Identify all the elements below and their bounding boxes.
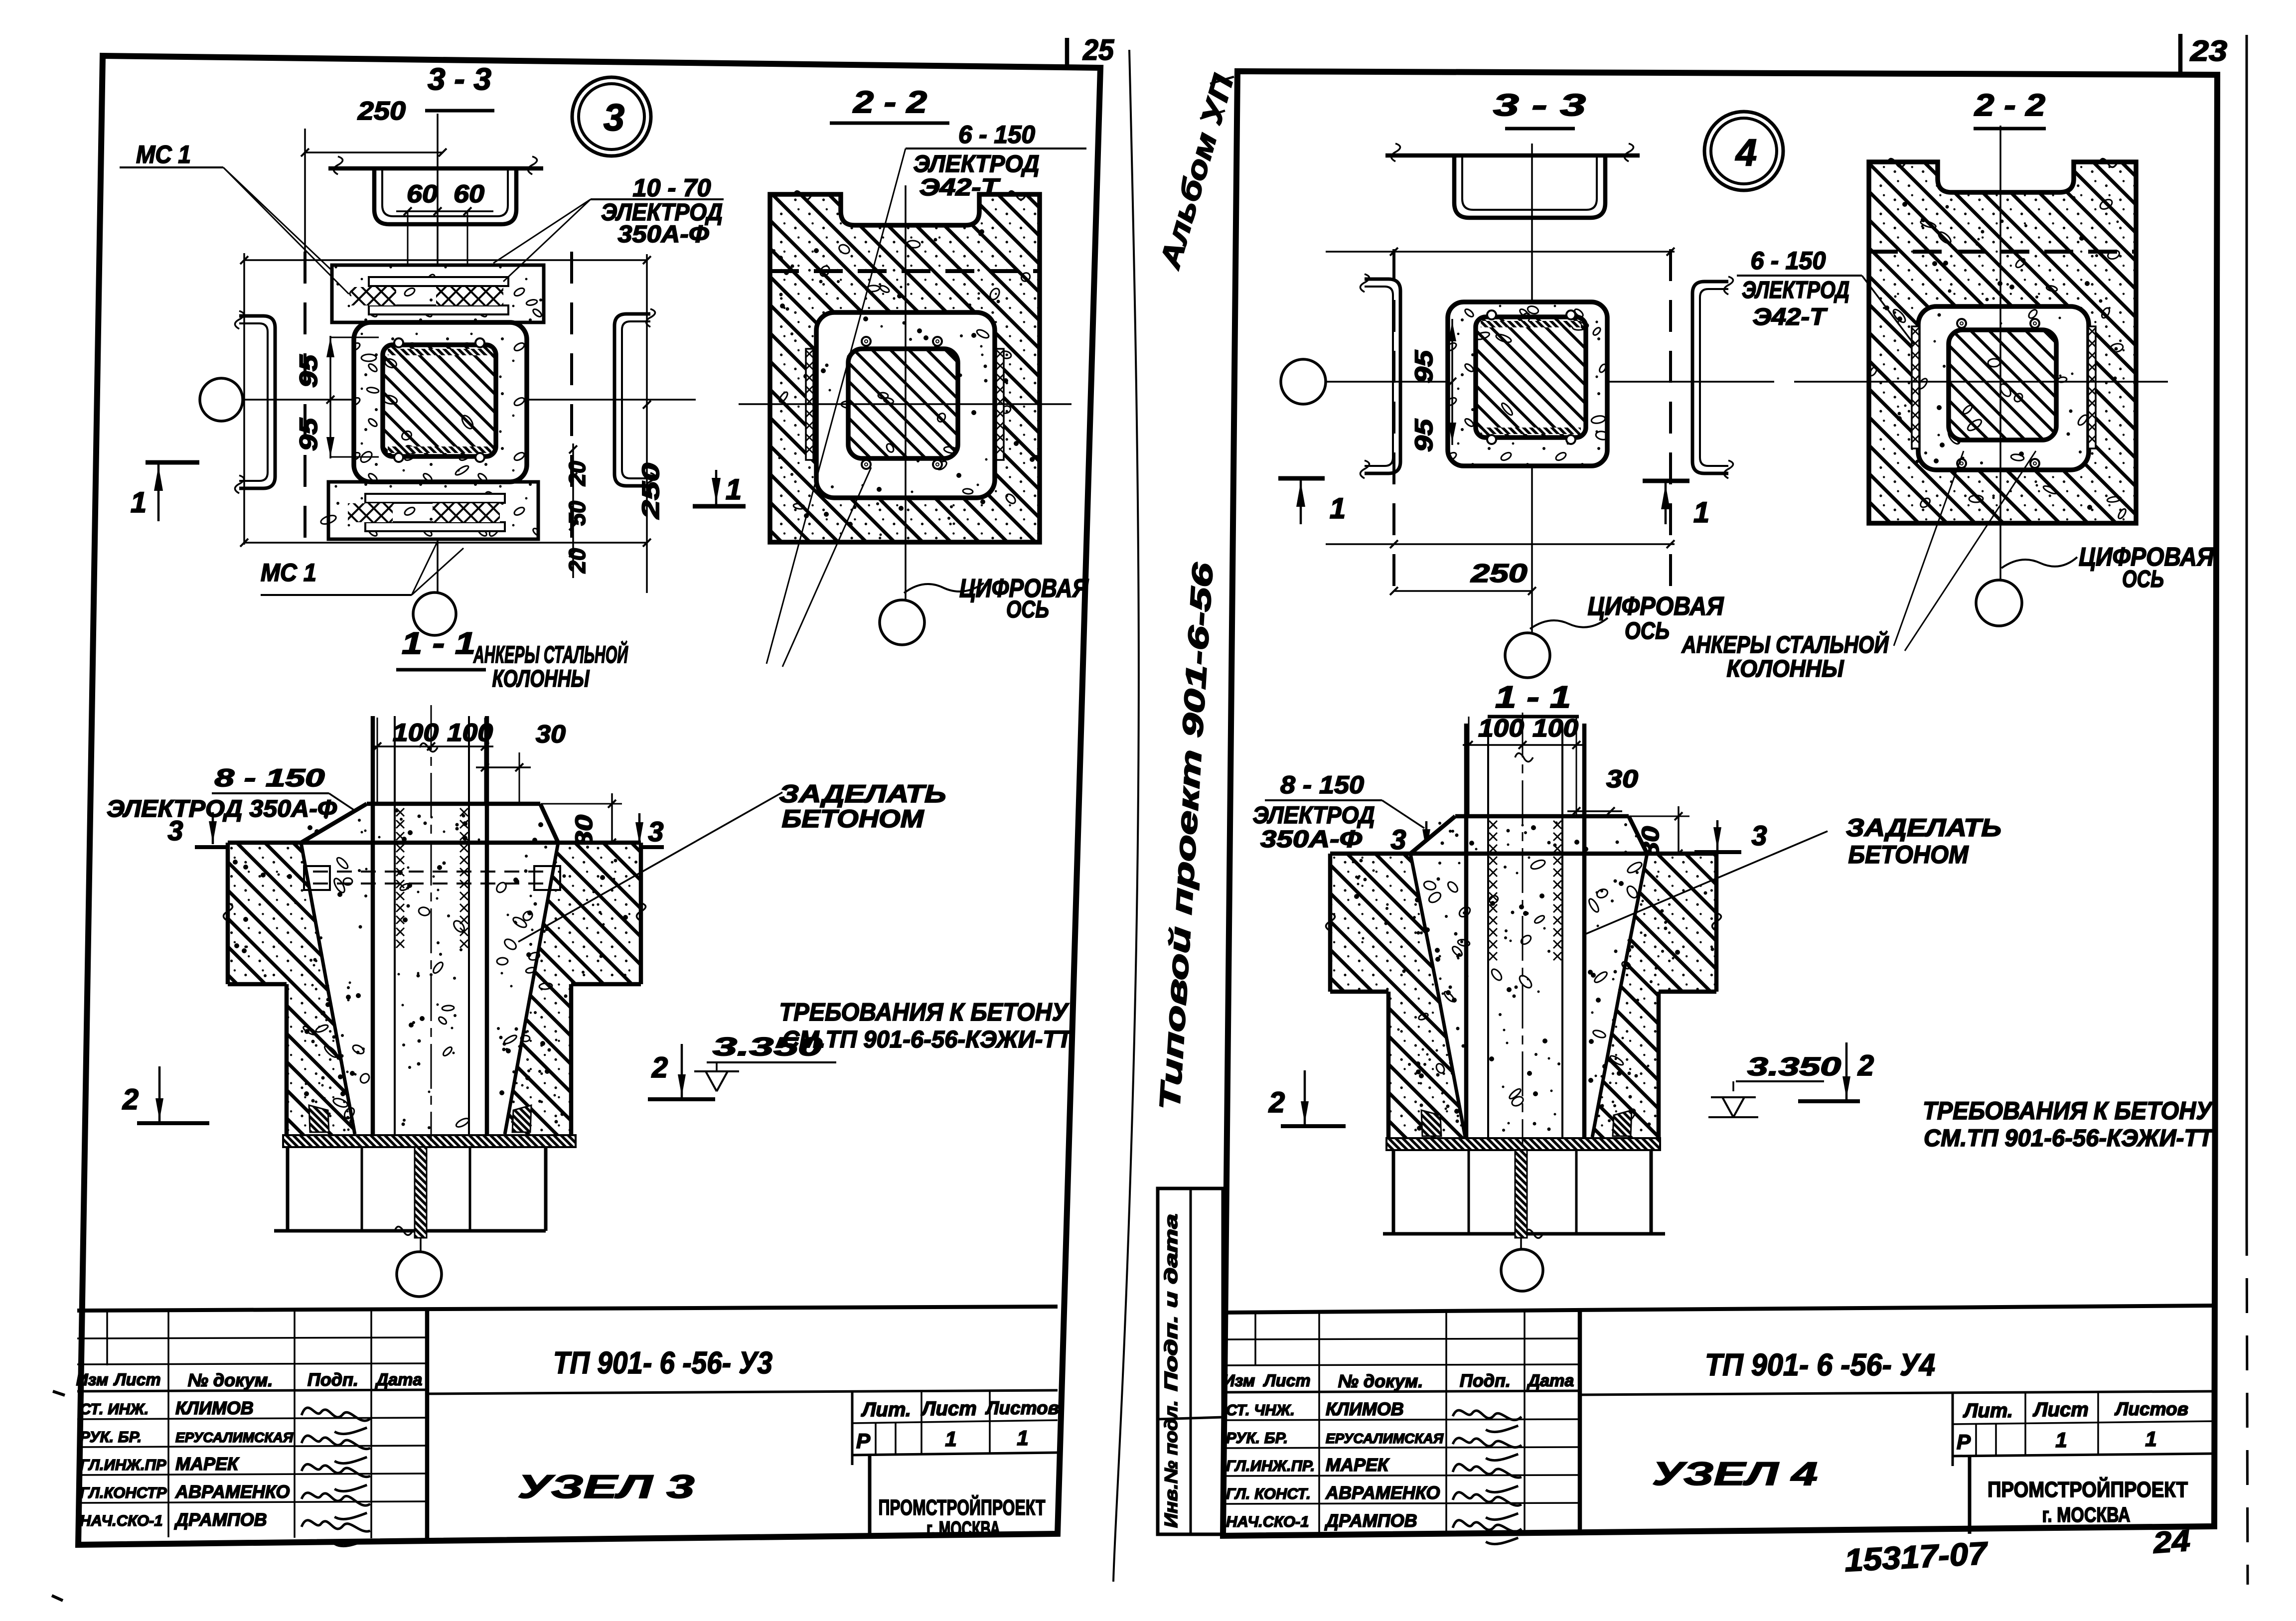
footing outline s2 (1330, 852, 1716, 856)
pedestal s2 (1386, 992, 1391, 1137)
svg-text:Лист: Лист (920, 1398, 977, 1420)
svg-text:ГЛ.КОНСТР: ГЛ.КОНСТР (80, 1484, 167, 1501)
svg-text:3.350: 3.350 (1747, 1052, 1841, 1081)
center lines 3-3 s2 (1326, 381, 1774, 383)
svg-text:20: 20 (564, 548, 590, 574)
section mark 3 right s1 (616, 845, 664, 849)
channels s2 3-3 (1365, 279, 1400, 473)
svg-text:Подп. и дата: Подп. и дата (1161, 1214, 1181, 1391)
svg-text:ОСЬ: ОСЬ (2122, 566, 2164, 592)
sheet2 frame (1223, 71, 2217, 1536)
sheet1 frame (78, 56, 1100, 1545)
svg-text:1: 1 (1017, 1426, 1028, 1450)
axis circle bottom 1-1 s1 (397, 1252, 442, 1297)
top bracket s2 (1385, 153, 1640, 158)
top bracket s1 (328, 166, 543, 171)
section mark 1 right s2 (1643, 479, 1689, 483)
svg-text:8 - 150: 8 - 150 (1280, 771, 1364, 799)
svg-text:Лит.: Лит. (1963, 1400, 2013, 1422)
svg-text:3: 3 (1390, 824, 1406, 855)
svg-text:УЗЕЛ 3: УЗЕЛ 3 (518, 1468, 695, 1505)
svg-text:50: 50 (564, 501, 590, 526)
stamp column inv/podp sheet2 (1158, 1188, 1223, 1534)
svg-text:30: 30 (536, 720, 566, 748)
svg-text:Подп.: Подп. (1460, 1370, 1511, 1391)
svg-text:ТРЕБОВАНИЯ К БЕТОНУ: ТРЕБОВАНИЯ К БЕТОНУ (779, 998, 1070, 1026)
center lines 2-2 s1 (739, 403, 1071, 405)
svg-text:100: 100 (1478, 714, 1524, 742)
svg-text:КЛИМОВ: КЛИМОВ (175, 1398, 254, 1418)
foundation below s2 (1392, 1150, 1395, 1234)
steel core s1 (383, 345, 496, 456)
svg-text:2: 2 (122, 1083, 139, 1116)
svg-text:БЕТОНОМ: БЕТОНОМ (782, 805, 924, 833)
svg-text:95: 95 (1410, 350, 1438, 383)
foundation below s1 (286, 1147, 290, 1231)
svg-text:350А-Ф: 350А-Ф (1260, 826, 1363, 853)
svg-text:ЗАДЕЛАТЬ: ЗАДЕЛАТЬ (779, 780, 946, 808)
center lines 3-3 s1 (243, 399, 696, 401)
svg-text:1 - 1: 1 - 1 (402, 626, 475, 661)
right page edge line (2246, 35, 2248, 1221)
svg-text:250: 250 (1470, 559, 1527, 588)
axis circle 2-2 s2 (1976, 580, 2022, 626)
svg-text:ЭЛЕКТРОД: ЭЛЕКТРОД (914, 151, 1040, 177)
svg-text:95: 95 (295, 354, 322, 388)
axis circle left s1 (200, 378, 243, 421)
svg-text:Р: Р (1957, 1430, 1971, 1454)
svg-text:СМ.ТП 901-6-56-КЭЖИ-ТТ: СМ.ТП 901-6-56-КЭЖИ-ТТ (1924, 1125, 2215, 1152)
svg-text:АНКЕРЫ СТАЛЬНОЙ: АНКЕРЫ СТАЛЬНОЙ (473, 641, 628, 668)
svg-text:1: 1 (2145, 1427, 2156, 1451)
svg-text:100: 100 (1532, 714, 1578, 742)
svg-text:Изм: Изм (76, 1370, 109, 1389)
svg-text:ЕРУСАЛИМСКАЯ: ЕРУСАЛИМСКАЯ (175, 1430, 294, 1445)
svg-text:СМ.ТП 901-6-56-КЭЖИ-ТТ: СМ.ТП 901-6-56-КЭЖИ-ТТ (782, 1027, 1073, 1053)
dashed grout joint 2-2 s1 (770, 269, 1040, 273)
weld xxx strips 1-1 s2 (1489, 821, 1497, 829)
center axis 1-1 s2 (1522, 713, 1524, 1144)
svg-text:БЕТОНОМ: БЕТОНОМ (1848, 841, 1969, 869)
svg-text:КОЛОННЫ: КОЛОННЫ (1727, 656, 1844, 682)
svg-text:3: 3 (167, 815, 183, 846)
anchor bolt s2 (1515, 1150, 1527, 1238)
svg-text:250: 250 (638, 463, 664, 520)
svg-text:Подп.: Подп. (307, 1369, 358, 1390)
svg-text:ОСЬ: ОСЬ (1625, 618, 1670, 644)
svg-text:60: 60 (407, 180, 438, 208)
elevation 1-1 s1 (228, 843, 327, 984)
svg-text:2 - 2: 2 - 2 (853, 85, 927, 120)
axis circle bottom s1 (413, 592, 456, 635)
svg-text:ЭЛЕКТРОД 350А-Ф: ЭЛЕКТРОД 350А-Ф (107, 796, 337, 822)
anchor bolt s1 (415, 1147, 427, 1238)
axis dashed verticals 3-3 s1 (304, 252, 306, 547)
svg-text:ЦИФРОВАЯ: ЦИФРОВАЯ (1588, 592, 1724, 621)
collar outline s1 (367, 802, 540, 806)
weld strips 2-2 s2 (1912, 326, 1919, 448)
svg-text:3: 3 (604, 97, 624, 139)
svg-text:МС 1: МС 1 (261, 559, 316, 587)
svg-text:МАРЕК: МАРЕК (175, 1454, 240, 1474)
section mark 1 right s1 (693, 504, 746, 509)
svg-text:1: 1 (945, 1427, 956, 1451)
dim 80 s2 (1617, 816, 1689, 817)
dim 95/95 s1 (329, 336, 331, 458)
center axis 1-1 s1 (431, 705, 432, 1141)
column plan square s1 (354, 322, 527, 482)
svg-text:Э42-Т: Э42-Т (919, 174, 1001, 201)
svg-text:1: 1 (1330, 492, 1346, 525)
svg-text:ЭЛЕКТРОД: ЭЛЕКТРОД (1742, 277, 1849, 303)
weld xxx strips 1-1 s1 (396, 808, 404, 816)
svg-text:Листов: Листов (2114, 1399, 2188, 1419)
steel core s2 (1476, 317, 1586, 438)
dims right 20/50/20 + 250 s1 (572, 443, 574, 578)
svg-text:г. МОСКВА: г. МОСКВА (926, 1517, 1000, 1540)
svg-text:24: 24 (2151, 1524, 2191, 1560)
svg-text:ЕРУСАЛИМСКАЯ: ЕРУСАЛИМСКАЯ (1326, 1431, 1444, 1446)
svg-text:СТ. ИНЖ.: СТ. ИНЖ. (80, 1400, 149, 1418)
weld strips 2-2 s1 (806, 349, 813, 460)
axis circle bottom 1-1 s2 (1501, 1249, 1543, 1291)
svg-text:Лист: Лист (1262, 1371, 1310, 1390)
svg-text:2: 2 (1857, 1049, 1874, 1082)
svg-text:УЗЕЛ 4: УЗЕЛ 4 (1652, 1455, 1818, 1492)
svg-text:4: 4 (1735, 132, 1757, 174)
svg-text:КЛИМОВ: КЛИМОВ (1326, 1399, 1404, 1419)
svg-text:Инв.№ подл.: Инв.№ подл. (1161, 1400, 1181, 1528)
svg-text:20: 20 (564, 461, 590, 486)
svg-text:Дата: Дата (1527, 1371, 1574, 1390)
cup cavity slants s2 (1410, 854, 1438, 992)
svg-text:Лит.: Лит. (861, 1399, 911, 1421)
svg-text:МС 1: МС 1 (136, 141, 191, 168)
svg-text:1: 1 (131, 486, 147, 519)
base strip s2 (1386, 1138, 1660, 1150)
svg-text:СТ. ЧНЖ.: СТ. ЧНЖ. (1226, 1401, 1295, 1419)
svg-text:6 - 150: 6 - 150 (958, 121, 1035, 148)
node circle 3 (572, 77, 651, 156)
svg-text:ТРЕБОВАНИЯ К БЕТОНУ: ТРЕБОВАНИЯ К БЕТОНУ (1923, 1097, 2214, 1125)
foundation cup section 2-2 s1 (770, 194, 1040, 542)
svg-text:8 - 150: 8 - 150 (215, 764, 325, 792)
svg-text:2: 2 (1268, 1086, 1285, 1119)
steel core 2-2 s1 (848, 349, 958, 458)
svg-text:ЭЛЕКТРОД: ЭЛЕКТРОД (1253, 802, 1375, 829)
section mark 3 right s2 (1694, 850, 1741, 854)
svg-text:ДРАМПОВ: ДРАМПОВ (1324, 1510, 1417, 1531)
svg-text:250: 250 (357, 97, 406, 126)
dim 80 s1 (541, 803, 622, 805)
anchor bolts 2-2 s2 (1957, 319, 1966, 328)
svg-text:ПРОМСТРОЙПРОЕКТ: ПРОМСТРОЙПРОЕКТ (879, 1494, 1046, 1520)
column in cup 2-2 s1 (816, 312, 995, 498)
svg-text:Э42-Т: Э42-Т (1753, 304, 1828, 330)
dashed grout joint 2-2 s2 (1869, 250, 2136, 254)
svg-text:Дата: Дата (375, 1370, 423, 1389)
elevation 1-1 s2 (1330, 854, 1438, 992)
svg-text:95: 95 (1410, 419, 1438, 452)
column shaft s2 (1464, 724, 1469, 1137)
svg-text:95: 95 (295, 418, 322, 451)
svg-text:3 - 3: 3 - 3 (428, 62, 491, 97)
svg-text:1: 1 (1693, 496, 1709, 529)
svg-text:3 - 3: 3 - 3 (1493, 88, 1586, 123)
svg-text:НАЧ.СКО-1: НАЧ.СКО-1 (1226, 1513, 1309, 1530)
svg-text:АВРАМЕНКО: АВРАМЕНКО (1325, 1482, 1440, 1503)
channels s1 3-3 (239, 316, 275, 488)
title block sheet2 (1224, 1306, 2215, 1313)
svg-text:1 - 1: 1 - 1 (1495, 680, 1571, 715)
column in cup 2-2 s2 (1918, 306, 2089, 470)
svg-text:НАЧ.СКО-1: НАЧ.СКО-1 (80, 1512, 163, 1529)
svg-text:3: 3 (1751, 820, 1767, 851)
svg-text:РУК. БР.: РУК. БР. (80, 1428, 142, 1446)
title block sheet1 (77, 1307, 1058, 1311)
svg-text:ГЛ.ИНЖ.ПР: ГЛ.ИНЖ.ПР (80, 1456, 166, 1474)
cup cavity slants s1 (301, 843, 327, 984)
svg-text:АНКЕРЫ СТАЛЬНОЙ: АНКЕРЫ СТАЛЬНОЙ (1682, 631, 1889, 658)
axis dashed verticals 3-3 s2 (1392, 249, 1395, 598)
dim 95/95 s2 (1451, 319, 1453, 445)
svg-text:ПРОМСТРОЙПРОЕКТ: ПРОМСТРОЙПРОЕКТ (1988, 1476, 2188, 1502)
base strip s1 (283, 1135, 576, 1147)
svg-text:КОЛОННЫ: КОЛОННЫ (492, 666, 590, 692)
svg-text:Лист: Лист (113, 1370, 160, 1389)
crease line between sheets (1113, 50, 1139, 1582)
svg-text:60: 60 (454, 180, 484, 208)
grout band top s1 (332, 265, 544, 322)
grout band bottom s1 (328, 482, 538, 539)
foundation cup 2-2 s2 (1869, 162, 2136, 523)
svg-text:МАРЕК: МАРЕК (1326, 1455, 1390, 1475)
svg-text:15317-07: 15317-07 (1843, 1535, 1990, 1578)
svg-text:25: 25 (1082, 34, 1114, 66)
svg-text:Изм: Изм (1223, 1371, 1255, 1390)
svg-text:350А-Ф: 350А-Ф (618, 221, 710, 248)
page number 23 sheet2 (2178, 34, 2183, 74)
svg-text:23: 23 (2190, 35, 2227, 67)
svg-text:г. МОСКВА: г. МОСКВА (2042, 1503, 2131, 1526)
svg-text:10 - 70: 10 - 70 (633, 174, 711, 202)
axis circle 2-2 s1 (880, 600, 924, 645)
axis circles 3-3 s2 (1281, 359, 1326, 404)
band dim lines s1 (244, 259, 647, 261)
svg-text:ТП 901- 6 -56- У3: ТП 901- 6 -56- У3 (553, 1346, 772, 1380)
anchor bolts 2-2 s1 (862, 337, 871, 346)
svg-text:1: 1 (2055, 1428, 2067, 1452)
shim wedges s1 (309, 1105, 329, 1132)
svg-text:Р: Р (856, 1429, 871, 1453)
svg-text:№ докум.: № докум. (188, 1370, 273, 1390)
svg-text:№ докум.: № докум. (1338, 1371, 1423, 1391)
column shaft s1 (371, 716, 375, 1134)
svg-text:РУК. БР.: РУК. БР. (1226, 1429, 1288, 1447)
svg-text:Листов: Листов (985, 1398, 1059, 1418)
section mark 1 left s2 (1278, 476, 1325, 481)
svg-text:ГЛ.ИНЖ.ПР.: ГЛ.ИНЖ.ПР. (1226, 1457, 1315, 1474)
svg-text:ЗАДЕЛАТЬ: ЗАДЕЛАТЬ (1846, 814, 2001, 842)
collar outline s2 (1455, 814, 1629, 819)
svg-text:2 - 2: 2 - 2 (1974, 88, 2045, 123)
section mark 1 left s1 (146, 460, 199, 465)
svg-text:2: 2 (651, 1051, 668, 1084)
shim wedges s2 (1421, 1110, 1441, 1136)
column plan square s2 (1448, 302, 1607, 466)
stray scan marks (53, 1391, 65, 1395)
steel core 2-2 s2 (1949, 330, 2056, 440)
svg-text:30: 30 (1606, 765, 1638, 793)
svg-text:ТП 901- 6 -56- У4: ТП 901- 6 -56- У4 (1705, 1348, 1935, 1382)
svg-text:Лист: Лист (2032, 1399, 2089, 1421)
long leader to ankery s1 (766, 148, 906, 664)
svg-text:АВРАМЕНКО: АВРАМЕНКО (175, 1481, 290, 1502)
svg-text:ДРАМПОВ: ДРАМПОВ (174, 1509, 267, 1530)
svg-text:3: 3 (648, 816, 663, 847)
svg-text:1: 1 (726, 473, 742, 506)
center lines 2-2 s2 (1794, 381, 2168, 383)
svg-text:ГЛ. КОНСТ.: ГЛ. КОНСТ. (1226, 1485, 1311, 1502)
node circle 4 (1704, 112, 1783, 190)
page number tick sheet1 (1065, 38, 1070, 67)
footing outline s1 (228, 841, 641, 845)
pedestal s1 (285, 984, 289, 1134)
svg-text:ОСЬ: ОСЬ (1006, 596, 1049, 623)
svg-text:6 - 150: 6 - 150 (1751, 247, 1826, 275)
anchor plates dashed s1 (313, 871, 551, 873)
